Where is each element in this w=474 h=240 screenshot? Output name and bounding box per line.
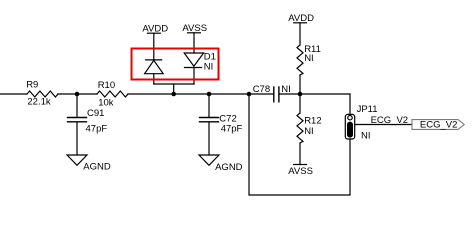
node junction C78/JP11 bottom route bbox=[247, 92, 252, 97]
svg-text:ECG_V2: ECG_V2 bbox=[371, 115, 409, 126]
ground AGND under C72 bbox=[199, 155, 243, 173]
svg-text:10k: 10k bbox=[98, 97, 114, 108]
node junction R11/R12 bbox=[298, 92, 303, 97]
svg-text:NI: NI bbox=[361, 131, 371, 142]
wire diode bottom connector bbox=[154, 83, 194, 85]
wire C78 left node down, along bottom, up to JP11 pin2 bbox=[249, 94, 350, 195]
svg-text:AVSS: AVSS bbox=[288, 166, 313, 177]
resistor R11 bbox=[297, 44, 321, 94]
capacitor C78 (series, not installed) bbox=[253, 84, 291, 102]
wire R10 to C78 left plate bbox=[128, 93, 274, 95]
svg-text:47pF: 47pF bbox=[221, 123, 243, 134]
node junction C72 tap bbox=[207, 92, 212, 97]
diode D1b (clamp to AVSS, anode up) bbox=[184, 51, 216, 84]
resistor R12 bbox=[297, 94, 322, 165]
wire diode tap drop bbox=[173, 84, 175, 94]
off-page connector ECG_V2 bbox=[412, 120, 464, 131]
svg-text:47pF: 47pF bbox=[86, 124, 108, 135]
svg-text:R10: R10 bbox=[98, 80, 115, 91]
capacitor C72 bbox=[200, 94, 243, 155]
svg-text:22.1k: 22.1k bbox=[27, 97, 50, 108]
svg-text:AGND: AGND bbox=[83, 161, 111, 172]
power AVDD top-right bbox=[288, 13, 314, 45]
svg-text:R9: R9 bbox=[26, 79, 38, 90]
svg-text:D1: D1 bbox=[204, 51, 216, 62]
power AVSS top bbox=[182, 23, 207, 53]
wire corner down to JP11 pin1 bbox=[349, 94, 351, 116]
diode D1a (clamp to AVDD, cathode up) bbox=[145, 60, 164, 84]
wire main input segment left bbox=[0, 93, 27, 95]
node junction diode tap bbox=[171, 92, 176, 97]
svg-text:NI: NI bbox=[281, 84, 291, 95]
ground AGND under C91 bbox=[67, 155, 111, 172]
red selection box around D1 bbox=[132, 49, 219, 80]
svg-text:AGND: AGND bbox=[215, 162, 243, 173]
resistor R9 bbox=[26, 79, 58, 107]
node junction C91 tap bbox=[75, 92, 80, 97]
svg-text:NI: NI bbox=[304, 126, 314, 137]
svg-text:C78: C78 bbox=[253, 84, 270, 95]
power AVSS bottom bbox=[288, 165, 313, 178]
wire JP11 to off-page connector bbox=[355, 124, 412, 126]
resistor R10 bbox=[97, 80, 128, 108]
connector JP11 bbox=[345, 104, 377, 142]
svg-text:C91: C91 bbox=[87, 108, 104, 119]
power AVDD top-left bbox=[142, 24, 168, 60]
wire between R9 and R10 bbox=[58, 93, 97, 95]
capacitor C91 bbox=[68, 94, 108, 155]
svg-text:NI: NI bbox=[304, 53, 314, 64]
svg-text:NI: NI bbox=[204, 62, 214, 73]
wire C78 right to corner bbox=[279, 93, 350, 95]
svg-text:ECG_V2: ECG_V2 bbox=[420, 120, 458, 131]
svg-text:JP11: JP11 bbox=[357, 104, 378, 115]
